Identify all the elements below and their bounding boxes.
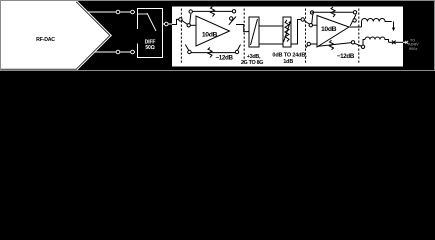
contact A1 bypass top L xyxy=(189,10,192,13)
svg-text:RF-DAC: RF-DAC xyxy=(36,37,55,43)
contact A2 in throw xyxy=(309,24,312,27)
contact A2 bypass top R xyxy=(353,11,356,14)
switch arm A1 out to bottom bypass xyxy=(237,45,240,51)
switch arm A2 contact to balun xyxy=(354,43,362,46)
switch S1 input stub xyxy=(138,13,147,15)
bypass bottom A2 contact R xyxy=(351,41,354,44)
contact A1 out pole xyxy=(230,17,233,20)
amp A2 xyxy=(317,16,349,48)
wire A1 out jog xyxy=(236,25,249,32)
bypass bottom A2 diagonal xyxy=(318,43,352,47)
divider dashed 1 xyxy=(180,9,182,65)
wire module input jog xyxy=(172,19,179,24)
contact A2 out pole xyxy=(353,19,356,22)
RF-DAC pentagon bottom border xyxy=(1,68,77,70)
switch arm A1 to bottom bypass xyxy=(185,45,188,51)
attenuator zigzag top A1 xyxy=(211,7,215,17)
contact A2 bypass top L xyxy=(310,11,313,14)
switch arm A2 out xyxy=(350,15,356,26)
svg-text:10dB: 10dB xyxy=(202,31,218,38)
attenuator zigzag top A2 xyxy=(331,7,335,17)
balun T1 primary arrow down xyxy=(393,22,395,29)
terminal N1 xyxy=(116,50,120,54)
contact A1 in throw xyxy=(187,24,190,27)
wire DAC outP xyxy=(88,11,135,13)
attenuator AT1 slash xyxy=(251,19,258,45)
switch arm A2 to top bypass xyxy=(312,14,313,24)
switch arm A1 in xyxy=(182,20,188,24)
attenuator box AT1 xyxy=(249,17,259,47)
divider dashed 2 xyxy=(243,9,245,65)
svg-text:−12dB: −12dB xyxy=(215,54,233,61)
switch arm A1 out xyxy=(229,17,236,25)
terminal P2 xyxy=(131,10,135,14)
svg-text:50Ω: 50Ω xyxy=(145,45,154,51)
RF-DAC block U1 (pentagon) xyxy=(1,1,113,71)
contact A2 in pole xyxy=(301,18,304,21)
bypass bottom A1 contact R xyxy=(235,50,238,53)
connector X xyxy=(392,41,396,45)
wire AT2 out jog xyxy=(291,20,301,45)
terminal N2 xyxy=(131,50,135,54)
divider dashed 3 xyxy=(305,9,307,65)
attenuator box AT2 (DSA) xyxy=(283,17,291,47)
svg-text:1dB: 1dB xyxy=(283,59,293,65)
svg-text:900x: 900x xyxy=(409,47,418,51)
wire module to load xyxy=(403,41,407,43)
attenuator zigzag bottom A2 xyxy=(330,40,334,50)
terminal P1 xyxy=(116,10,120,14)
wire switch to module xyxy=(163,23,172,25)
switch arm A2 to bottom bypass xyxy=(306,45,309,48)
terminal balun secondary xyxy=(361,45,364,48)
balun T1 secondary riser xyxy=(363,40,365,46)
bypass top A1 wire xyxy=(192,10,233,12)
divider dashed 4 xyxy=(358,9,360,65)
switch box S1 border xyxy=(138,9,163,58)
switch arm A2 in xyxy=(304,20,310,24)
wire into amp A2 xyxy=(312,24,317,26)
bypass bottom A2 stub L xyxy=(310,43,317,45)
bypass top A2 wire xyxy=(312,11,354,13)
connector X2 xyxy=(405,41,408,44)
svg-text:−12dB: −12dB xyxy=(337,53,355,60)
attenuator zigzag bottom A1 xyxy=(208,48,212,58)
svg-text:10dB: 10dB xyxy=(321,26,337,33)
terminal T3 xyxy=(165,22,169,26)
bypass bottom A2 contact L xyxy=(307,42,310,45)
bypass bottom A1 wire xyxy=(191,52,236,54)
frame border xyxy=(1,1,435,71)
amplifier module panel xyxy=(172,7,403,67)
bypass bottom A1 contact L xyxy=(188,50,191,53)
equalizer box ATM xyxy=(259,26,283,44)
switch box S1 xyxy=(138,9,163,58)
balun T1 primary feed riser xyxy=(361,22,363,28)
wire amp A2 out xyxy=(349,26,362,28)
output wire xyxy=(389,41,404,43)
contact A1 bypass top R xyxy=(232,10,235,13)
wire into amp A1 xyxy=(190,24,196,26)
contact A1 in pole xyxy=(179,18,182,21)
wire DAC outN xyxy=(95,51,135,53)
RF-DAC pentagon edge border xyxy=(76,2,110,69)
balun T1 secondary coil xyxy=(365,37,389,42)
switch arm A1 to top bypass xyxy=(190,14,191,24)
amp A1 xyxy=(196,16,230,46)
switch S1 arm xyxy=(147,13,156,31)
svg-text:2G TO 8G: 2G TO 8G xyxy=(241,60,263,66)
DSA zigzag xyxy=(285,20,289,42)
svg-text:0dB TO 24dB,: 0dB TO 24dB, xyxy=(272,53,307,59)
DSA arrow xyxy=(284,24,290,43)
balun T1 primary coil xyxy=(362,19,392,22)
